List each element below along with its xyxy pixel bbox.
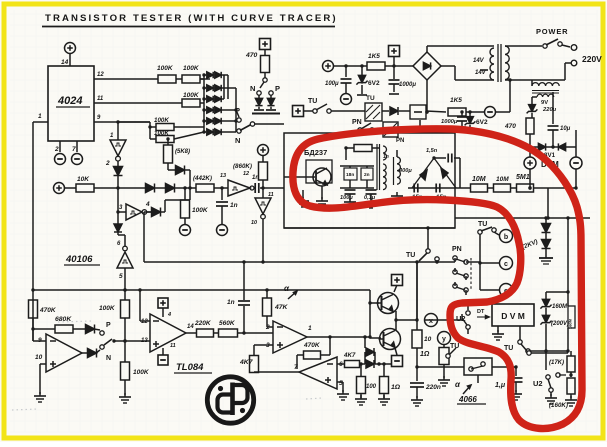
svg-text:POWER: POWER — [536, 27, 568, 36]
svg-text:TU: TU — [366, 95, 375, 102]
svg-text:13: 13 — [220, 173, 226, 179]
svg-text:100: 100 — [366, 384, 377, 390]
svg-text:11: 11 — [97, 96, 104, 102]
svg-text:(17K): (17K) — [549, 360, 564, 366]
svg-text:TU: TU — [308, 98, 317, 105]
svg-text:10: 10 — [251, 220, 257, 226]
svg-text:10: 10 — [424, 336, 432, 343]
svg-text:9V: 9V — [541, 100, 548, 106]
svg-text:10μ: 10μ — [560, 126, 571, 132]
svg-text:P: P — [106, 322, 111, 329]
svg-text:x: x — [429, 318, 433, 325]
svg-text:1000μ: 1000μ — [399, 82, 416, 88]
svg-text:470: 470 — [245, 52, 258, 59]
svg-text:100K: 100K — [183, 65, 200, 72]
svg-text:1K5: 1K5 — [450, 97, 462, 104]
svg-text:N: N — [106, 355, 111, 362]
svg-text:10K: 10K — [77, 176, 90, 183]
svg-text:4024: 4024 — [57, 95, 82, 107]
svg-text:100μ: 100μ — [325, 81, 339, 87]
svg-text:P: P — [275, 84, 280, 93]
svg-text:2: 2 — [105, 160, 110, 167]
svg-text:TU: TU — [478, 221, 487, 228]
svg-text:220n: 220n — [425, 384, 441, 391]
svg-text:2: 2 — [265, 324, 270, 331]
svg-text:1,5n: 1,5n — [426, 148, 438, 154]
svg-text:560K: 560K — [219, 320, 236, 327]
svg-text:13: 13 — [141, 338, 148, 344]
svg-text:(442K): (442K) — [193, 175, 212, 182]
svg-text:7: 7 — [72, 146, 76, 153]
svg-text:1: 1 — [308, 325, 312, 332]
svg-text:D V M: D V M — [501, 311, 525, 321]
svg-text:18n: 18n — [346, 172, 354, 178]
svg-text:(200V): (200V) — [551, 321, 569, 327]
svg-text:2n: 2n — [364, 172, 370, 178]
svg-text:2: 2 — [54, 146, 59, 153]
svg-text:1: 1 — [38, 113, 42, 120]
svg-text:P: P — [235, 106, 240, 115]
svg-text:TL084: TL084 — [176, 362, 204, 373]
svg-text:470: 470 — [504, 123, 516, 130]
svg-text:PN: PN — [452, 246, 462, 253]
svg-text:100μ: 100μ — [340, 195, 353, 201]
svg-text:40106: 40106 — [65, 254, 93, 265]
svg-text:4066: 4066 — [458, 395, 477, 404]
svg-text:100K: 100K — [192, 207, 209, 214]
svg-text:4K7: 4K7 — [343, 352, 356, 359]
svg-text:TU: TU — [406, 252, 415, 259]
svg-text:160M: 160M — [568, 318, 573, 329]
svg-text:14: 14 — [61, 59, 69, 66]
svg-text:100K: 100K — [183, 92, 200, 99]
svg-text:PN: PN — [352, 119, 362, 126]
svg-text:470K: 470K — [39, 307, 57, 314]
svg-text:10M: 10M — [472, 176, 486, 183]
svg-text:10: 10 — [35, 354, 43, 361]
svg-text:U2: U2 — [533, 379, 543, 388]
svg-text:6V2: 6V2 — [476, 119, 488, 126]
svg-text:y: y — [442, 336, 446, 343]
svg-text:1n: 1n — [230, 202, 238, 209]
svg-text:DT: DT — [477, 309, 485, 315]
svg-text:5M1: 5M1 — [516, 174, 530, 181]
svg-text:TRANSISTOR TESTER (WITH CUR: TRANSISTOR TESTER (WITH CURVE TRACER) — [45, 13, 338, 24]
svg-text:100K: 100K — [99, 305, 116, 312]
svg-text:220μ: 220μ — [542, 107, 557, 113]
svg-text:1,μ: 1,μ — [495, 382, 506, 389]
svg-text:(5K8): (5K8) — [175, 149, 190, 155]
svg-text:47K: 47K — [274, 304, 289, 311]
svg-text:c: c — [504, 261, 508, 268]
svg-text:11: 11 — [170, 343, 176, 349]
svg-text:100K: 100K — [133, 369, 150, 376]
svg-text:10M: 10M — [496, 176, 509, 183]
svg-text:1n: 1n — [227, 299, 235, 306]
svg-text:6V2: 6V2 — [368, 80, 380, 87]
svg-text:12: 12 — [97, 72, 104, 78]
svg-text:5: 5 — [119, 273, 123, 280]
svg-text:1Ω: 1Ω — [391, 384, 401, 391]
svg-text:100K: 100K — [157, 65, 174, 72]
svg-text:12: 12 — [141, 319, 148, 325]
svg-text:БД237: БД237 — [304, 148, 327, 157]
svg-text:(160K): (160K) — [549, 402, 568, 409]
svg-text:11: 11 — [268, 192, 274, 198]
svg-text:12: 12 — [243, 171, 249, 177]
svg-text:4: 4 — [167, 312, 171, 318]
svg-text:N: N — [250, 84, 255, 93]
svg-text:14V: 14V — [473, 58, 485, 64]
svg-text:220V: 220V — [582, 54, 602, 64]
svg-text:1K5: 1K5 — [368, 53, 380, 60]
svg-text:1n: 1n — [383, 154, 389, 160]
svg-text:TU: TU — [504, 345, 513, 352]
svg-text:160M: 160M — [552, 304, 568, 310]
svg-text:14: 14 — [187, 324, 194, 330]
svg-text:220K: 220K — [194, 320, 212, 327]
svg-text:470K: 470K — [303, 342, 321, 349]
svg-text:400μ: 400μ — [398, 168, 412, 174]
svg-text:7: 7 — [294, 364, 298, 371]
svg-text:N: N — [235, 136, 240, 145]
svg-text:1Ω: 1Ω — [420, 351, 430, 358]
svg-text:(860K): (860K) — [233, 163, 252, 170]
svg-text:PN: PN — [396, 138, 404, 144]
svg-text:4K7: 4K7 — [239, 359, 254, 366]
svg-text:1000μ: 1000μ — [441, 119, 458, 125]
svg-text:b: b — [504, 234, 508, 241]
svg-text:4: 4 — [145, 201, 150, 208]
svg-text:14V: 14V — [475, 70, 487, 76]
